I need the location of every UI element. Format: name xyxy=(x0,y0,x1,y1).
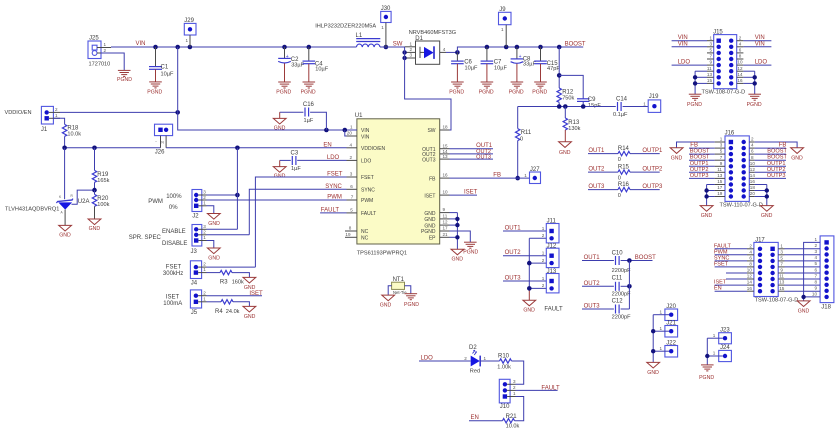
wire J3 pin2 to SYNC vertical xyxy=(207,234,250,236)
wire FSET xyxy=(255,177,346,267)
wire U1 PGND pin xyxy=(450,231,471,242)
ground PGND (J24) xyxy=(699,365,714,381)
resistor R18 xyxy=(53,118,81,148)
svg-text:47pF: 47pF xyxy=(547,66,560,72)
svg-text:VIN: VIN xyxy=(678,41,688,47)
svg-text:165k: 165k xyxy=(97,178,109,184)
svg-text:1: 1 xyxy=(815,237,818,242)
svg-text:16: 16 xyxy=(747,286,753,291)
svg-text:ISET: ISET xyxy=(424,193,435,199)
resistor R19 xyxy=(92,148,109,193)
resistor R13 xyxy=(563,107,581,142)
op-amp U1 TPS61193 xyxy=(355,113,440,256)
svg-text:19: 19 xyxy=(717,191,723,196)
wire OUT2 to J12 xyxy=(503,255,546,257)
svg-text:4: 4 xyxy=(751,143,754,148)
wire VIN rail xyxy=(111,46,356,48)
connector J4 xyxy=(190,261,206,287)
svg-text:4: 4 xyxy=(443,47,446,52)
svg-text:13: 13 xyxy=(779,280,785,285)
ground PGND (C1) xyxy=(147,82,162,96)
svg-text:FSET: FSET xyxy=(327,172,343,178)
svg-text:J27: J27 xyxy=(530,167,540,173)
svg-text:BOOST: BOOST xyxy=(767,149,787,155)
svg-text:PGND: PGND xyxy=(532,90,547,96)
svg-text:7: 7 xyxy=(720,155,723,160)
wire BOOST rail xyxy=(455,45,583,55)
svg-text:3: 3 xyxy=(815,249,818,254)
connector J22 xyxy=(653,340,677,357)
svg-text:R11: R11 xyxy=(521,130,532,136)
connector J9 xyxy=(499,7,512,47)
wire J11/J12/J13 pin2 common xyxy=(527,238,546,300)
svg-text:FAULT: FAULT xyxy=(541,386,560,392)
wire FB divider node xyxy=(518,104,616,109)
svg-text:LDO: LDO xyxy=(678,60,691,66)
svg-text:12: 12 xyxy=(737,66,743,71)
svg-text:11: 11 xyxy=(707,66,712,71)
wire EN right segment xyxy=(166,146,346,151)
svg-text:750k: 750k xyxy=(562,96,574,102)
svg-text:BOOST: BOOST xyxy=(635,255,656,261)
svg-text:GND: GND xyxy=(798,309,810,315)
svg-text:TSW-108-07-G-D: TSW-108-07-G-D xyxy=(755,298,799,304)
ground PGND (NT1) xyxy=(404,294,419,308)
svg-text:2: 2 xyxy=(350,155,353,160)
svg-text:PWM: PWM xyxy=(327,195,342,201)
svg-text:33µF: 33µF xyxy=(523,61,536,67)
svg-text:EP: EP xyxy=(429,236,436,242)
svg-text:2: 2 xyxy=(815,243,818,248)
wire J15 VIN pins 2,4 xyxy=(743,35,771,47)
svg-text:100%: 100% xyxy=(166,194,182,200)
svg-text:12: 12 xyxy=(750,167,756,172)
svg-text:J22: J22 xyxy=(666,340,676,346)
svg-text:2: 2 xyxy=(513,385,516,390)
svg-text:PGND: PGND xyxy=(699,375,714,381)
U1 pin 1 VIN xyxy=(347,125,370,135)
svg-text:BOOST: BOOST xyxy=(565,42,586,48)
svg-text:ISET: ISET xyxy=(249,291,263,297)
svg-text:4: 4 xyxy=(815,255,818,260)
U1 pin 17 PGND xyxy=(421,226,449,236)
svg-text:8: 8 xyxy=(349,226,352,231)
svg-text:U2A: U2A xyxy=(78,199,90,205)
resistor R21 xyxy=(469,397,524,430)
svg-text:GND: GND xyxy=(244,314,256,320)
ground GND (J13) xyxy=(523,300,536,313)
svg-text:5: 5 xyxy=(350,208,353,213)
svg-text:U1: U1 xyxy=(355,113,363,119)
svg-text:OUT3: OUT3 xyxy=(476,154,491,160)
svg-text:1.00k: 1.00k xyxy=(497,364,511,370)
svg-text:PGND: PGND xyxy=(276,90,291,96)
svg-text:J4: J4 xyxy=(191,280,198,286)
svg-text:8: 8 xyxy=(751,155,754,160)
svg-text:5: 5 xyxy=(710,48,713,53)
svg-text:1: 1 xyxy=(381,25,384,30)
svg-text:300kHz: 300kHz xyxy=(163,271,183,277)
svg-text:9: 9 xyxy=(780,268,783,273)
U1 pin 16 FB xyxy=(429,173,449,183)
svg-text:C1: C1 xyxy=(161,65,169,71)
svg-text:6: 6 xyxy=(751,149,754,154)
U1 pin 2 LDO xyxy=(347,155,372,165)
svg-text:10µF: 10µF xyxy=(315,66,328,72)
svg-text:18: 18 xyxy=(443,125,449,130)
svg-text:1: 1 xyxy=(524,173,527,178)
svg-text:J20: J20 xyxy=(666,304,676,310)
ground GND (R20) xyxy=(88,219,101,232)
wire FAULT xyxy=(320,212,346,214)
capacitor C1 xyxy=(149,47,174,82)
capacitor C6 xyxy=(451,52,478,82)
svg-text:J21: J21 xyxy=(666,320,676,326)
svg-text:GND: GND xyxy=(89,226,101,232)
inductor L1 xyxy=(315,24,404,47)
svg-text:ISET: ISET xyxy=(464,190,478,196)
header J15 xyxy=(702,30,746,96)
svg-text:16: 16 xyxy=(750,179,756,184)
wire J2 pin1 to GND xyxy=(207,206,214,214)
header J18 xyxy=(812,236,834,311)
resistor R10 xyxy=(497,353,523,384)
svg-text:2: 2 xyxy=(542,233,545,238)
svg-text:0: 0 xyxy=(520,137,523,143)
svg-text:GND: GND xyxy=(424,211,436,217)
svg-text:D2: D2 xyxy=(469,345,477,351)
svg-text:1: 1 xyxy=(513,391,516,396)
connector J29 xyxy=(184,18,196,47)
U1 pin 12 GND xyxy=(424,220,449,230)
wire J15 pins 11,13,15 to PGND xyxy=(693,71,707,94)
U1 pin 21 EP xyxy=(429,232,450,242)
svg-text:1µF: 1µF xyxy=(304,118,314,124)
svg-text:1: 1 xyxy=(643,101,646,106)
header J16 xyxy=(715,130,763,208)
svg-text:11: 11 xyxy=(717,167,722,172)
svg-text:PWM: PWM xyxy=(361,198,373,204)
wire OUT1 to J11 xyxy=(503,230,546,232)
svg-text:VIN: VIN xyxy=(136,41,146,47)
svg-text:C3: C3 xyxy=(291,151,299,157)
svg-text:R3: R3 xyxy=(220,279,228,285)
svg-text:1: 1 xyxy=(410,41,413,46)
svg-text:1: 1 xyxy=(780,243,783,248)
svg-text:1: 1 xyxy=(350,125,353,130)
wire J2 pin3 to EN xyxy=(207,148,240,230)
resistor R16 row xyxy=(588,182,663,199)
svg-text:0: 0 xyxy=(618,175,621,181)
svg-text:7: 7 xyxy=(780,262,783,267)
svg-text:2200pF: 2200pF xyxy=(612,315,632,321)
svg-text:GND: GND xyxy=(380,303,392,309)
svg-text:FAULT: FAULT xyxy=(361,211,376,217)
svg-text:R21: R21 xyxy=(506,414,518,420)
svg-text:4: 4 xyxy=(749,249,752,254)
svg-text:2: 2 xyxy=(203,290,206,295)
svg-text:C12: C12 xyxy=(612,299,624,305)
svg-text:15: 15 xyxy=(443,143,449,148)
svg-text:PGND: PGND xyxy=(147,90,162,96)
svg-text:130k: 130k xyxy=(568,126,580,132)
resistor R14 row xyxy=(588,146,663,163)
wire FB xyxy=(450,177,530,179)
svg-text:24.0k: 24.0k xyxy=(226,309,240,315)
svg-text:FSET: FSET xyxy=(166,265,182,271)
svg-text:PGND: PGND xyxy=(404,302,419,308)
resistor R15 row xyxy=(588,165,663,182)
U1 pin 7 PWM xyxy=(347,195,374,205)
svg-text:VDDIO/EN: VDDIO/EN xyxy=(5,110,32,116)
svg-text:6: 6 xyxy=(815,267,818,272)
U1 pin 6 SYNC xyxy=(347,184,376,194)
diode D1 xyxy=(405,30,458,64)
capacitor C4 xyxy=(303,47,329,82)
ground GND (J22) xyxy=(647,362,660,376)
svg-text:GND: GND xyxy=(452,256,464,262)
svg-text:FSET: FSET xyxy=(361,175,374,181)
capacitor C16 xyxy=(280,102,327,130)
ground GND (J2) xyxy=(207,214,220,227)
svg-text:1: 1 xyxy=(710,35,713,40)
wire J16 pin2 to GND xyxy=(755,142,798,148)
U1 pin 11 GND xyxy=(424,214,449,224)
connector J25 xyxy=(88,36,111,68)
svg-text:C16: C16 xyxy=(303,102,315,108)
svg-text:9: 9 xyxy=(710,60,713,65)
svg-text:16: 16 xyxy=(443,173,449,178)
svg-text:GND: GND xyxy=(791,155,803,161)
svg-text:OUTP2: OUTP2 xyxy=(642,167,663,173)
svg-text:12: 12 xyxy=(443,220,449,225)
wire J15 VIN pins 1,3 xyxy=(672,35,707,47)
ground PGND (C6) xyxy=(449,82,464,96)
U1 pin 20 VIN xyxy=(347,131,370,141)
svg-text:3: 3 xyxy=(710,41,713,46)
svg-text:J25: J25 xyxy=(89,36,99,42)
svg-text:1: 1 xyxy=(203,235,206,240)
svg-text:10µF: 10µF xyxy=(161,71,174,77)
wire J20-J22 common to GND xyxy=(651,315,655,363)
svg-text:3: 3 xyxy=(780,249,783,254)
wire ISET with net label xyxy=(450,194,478,196)
svg-text:0.1µF: 0.1µF xyxy=(613,112,628,118)
svg-text:LDO: LDO xyxy=(755,60,768,66)
svg-text:PGND: PGND xyxy=(449,90,464,96)
svg-text:VIN: VIN xyxy=(361,128,370,134)
wire J25 pin2 to PGND xyxy=(101,53,124,70)
ground PGND (J25) xyxy=(117,70,132,83)
svg-text:J19: J19 xyxy=(649,94,659,100)
svg-text:7: 7 xyxy=(710,54,713,59)
svg-text:2: 2 xyxy=(410,47,413,52)
svg-text:GND: GND xyxy=(671,155,683,161)
wire LDO with capacitor C3 xyxy=(280,151,347,172)
ground PGND (U1) xyxy=(463,242,478,255)
svg-text:PWM: PWM xyxy=(148,199,163,205)
net labels J17 left xyxy=(714,243,747,291)
net labels J16 left xyxy=(689,143,715,179)
svg-text:FAULT: FAULT xyxy=(544,306,563,312)
resistor R3 xyxy=(207,270,250,285)
svg-text:GND: GND xyxy=(208,221,220,227)
connector J19 xyxy=(643,94,660,113)
svg-text:BOOST: BOOST xyxy=(767,155,787,161)
svg-text:10: 10 xyxy=(747,268,753,273)
svg-text:14: 14 xyxy=(443,149,449,154)
svg-text:10.0k: 10.0k xyxy=(506,424,520,430)
svg-text:PGND: PGND xyxy=(301,90,316,96)
ground PGND (C8) xyxy=(509,82,524,96)
connector J1 xyxy=(41,106,60,133)
net labels J16 right xyxy=(755,143,788,179)
resistor R11 xyxy=(515,107,532,181)
svg-text:2: 2 xyxy=(739,35,742,40)
svg-text:18: 18 xyxy=(750,185,756,190)
svg-text:1: 1 xyxy=(484,356,487,361)
svg-text:8: 8 xyxy=(739,54,742,59)
ground PGND (C7) xyxy=(479,82,494,96)
svg-text:8: 8 xyxy=(815,279,818,284)
svg-text:OUTP1: OUTP1 xyxy=(642,148,663,154)
svg-text:BOOST: BOOST xyxy=(690,155,710,161)
svg-text:J26: J26 xyxy=(155,150,165,156)
capacitor C9 xyxy=(559,75,601,109)
wire FAULT (J10 pin2) xyxy=(516,389,558,391)
svg-text:VIN: VIN xyxy=(361,134,370,140)
svg-text:2: 2 xyxy=(104,48,107,53)
U1 pin 8 NC xyxy=(345,226,369,236)
svg-text:160k: 160k xyxy=(232,279,244,285)
svg-text:FSET: FSET xyxy=(714,261,729,267)
svg-text:9: 9 xyxy=(815,285,818,290)
svg-text:14: 14 xyxy=(737,72,743,77)
svg-text:PWM: PWM xyxy=(714,249,728,255)
svg-text:10: 10 xyxy=(737,60,743,65)
svg-text:3: 3 xyxy=(410,53,413,58)
U1 pin 4 VDDIO/EN xyxy=(347,142,386,152)
connector J23 xyxy=(707,328,731,344)
connector J3 xyxy=(191,224,207,255)
svg-text:2: 2 xyxy=(542,258,545,263)
svg-text:PGND: PGND xyxy=(117,77,132,83)
svg-text:1: 1 xyxy=(713,351,716,356)
svg-text:2: 2 xyxy=(203,262,206,267)
svg-text:14: 14 xyxy=(750,173,756,178)
svg-text:13: 13 xyxy=(443,154,449,159)
net-tie NT1 xyxy=(388,277,411,295)
connector J30 xyxy=(381,6,391,47)
svg-text:GND: GND xyxy=(208,255,220,261)
U1 pin 9 GND xyxy=(424,207,449,217)
svg-text:ENABLE: ENABLE xyxy=(162,229,186,235)
svg-text:1: 1 xyxy=(203,267,206,272)
svg-text:GND: GND xyxy=(523,308,535,314)
svg-text:10: 10 xyxy=(750,161,756,166)
svg-text:2: 2 xyxy=(203,195,206,200)
ground PGND (C15) xyxy=(532,82,547,96)
ground GND (U2A) xyxy=(59,225,72,238)
svg-text:17: 17 xyxy=(443,226,449,231)
svg-text:OUT3: OUT3 xyxy=(422,157,436,163)
svg-text:3: 3 xyxy=(720,143,723,148)
U1 pin 19 NC xyxy=(345,232,369,242)
svg-text:GND: GND xyxy=(647,370,659,376)
svg-text:FB: FB xyxy=(429,176,436,182)
ground GND (J3) xyxy=(207,248,220,261)
capacitor C7 xyxy=(481,47,508,82)
svg-text:SYNC: SYNC xyxy=(361,188,375,194)
svg-text:1: 1 xyxy=(660,346,663,351)
svg-text:4: 4 xyxy=(350,142,353,147)
capacitor C12 xyxy=(582,299,631,321)
svg-text:5: 5 xyxy=(815,261,818,266)
connector J5 xyxy=(190,290,206,316)
svg-text:NC: NC xyxy=(361,236,369,242)
svg-text:16: 16 xyxy=(737,78,743,83)
svg-text:2200pF: 2200pF xyxy=(612,292,632,298)
ground GND (U1) xyxy=(451,249,464,262)
ground GND (R3) xyxy=(243,277,256,290)
wire J4 pin2 to FSET vertical xyxy=(207,266,256,268)
svg-text:TSW-108-07-G-D: TSW-108-07-G-D xyxy=(702,90,746,96)
svg-text:FAULT: FAULT xyxy=(321,207,340,213)
svg-text:15: 15 xyxy=(779,286,785,291)
svg-text:GND: GND xyxy=(701,213,713,219)
svg-text:6: 6 xyxy=(739,48,742,53)
wire PWM xyxy=(207,199,347,201)
svg-text:13: 13 xyxy=(707,72,713,77)
svg-text:10µF: 10µF xyxy=(494,66,507,72)
svg-text:J2: J2 xyxy=(192,214,199,220)
wire OUT3 to J13 xyxy=(503,280,546,282)
svg-text:SYNC: SYNC xyxy=(325,184,342,190)
svg-text:19: 19 xyxy=(345,232,351,237)
svg-text:R4: R4 xyxy=(215,309,223,315)
svg-text:PGND: PGND xyxy=(687,102,702,108)
wire J5 pin2 ISET xyxy=(207,295,263,297)
wire J17 to J18 rows xyxy=(785,249,821,291)
svg-text:1: 1 xyxy=(660,326,663,331)
wire J15 LDO pins 9,10 xyxy=(672,60,772,66)
svg-text:10µF: 10µF xyxy=(465,66,478,72)
svg-text:10.0k: 10.0k xyxy=(67,131,81,137)
wire J23/J24 common to PGND xyxy=(705,338,709,365)
svg-text:J9: J9 xyxy=(499,7,506,13)
svg-text:LDO: LDO xyxy=(361,159,371,165)
svg-text:R10: R10 xyxy=(498,353,510,359)
svg-text:1: 1 xyxy=(55,113,58,118)
wire OUT3 with net label xyxy=(450,158,494,160)
svg-text:GND: GND xyxy=(559,150,571,156)
svg-text:2: 2 xyxy=(749,243,752,248)
wire SW net D1 pins common xyxy=(402,50,406,54)
svg-text:12: 12 xyxy=(747,274,753,279)
svg-text:J30: J30 xyxy=(381,6,391,12)
wire J15 pins 12,14,16 to PGND xyxy=(743,71,757,94)
connector J12 xyxy=(542,244,559,268)
ground GND (C3) xyxy=(273,160,286,179)
svg-text:1: 1 xyxy=(203,200,206,205)
svg-text:2200pF: 2200pF xyxy=(612,268,632,274)
svg-text:TSW-110-07-G-D: TSW-110-07-G-D xyxy=(720,203,763,209)
svg-text:NC: NC xyxy=(361,229,369,235)
ground GND (J18) xyxy=(797,301,810,315)
svg-text:11: 11 xyxy=(779,274,784,279)
svg-text:1: 1 xyxy=(713,333,716,338)
svg-text:OUTP3: OUTP3 xyxy=(642,184,663,190)
